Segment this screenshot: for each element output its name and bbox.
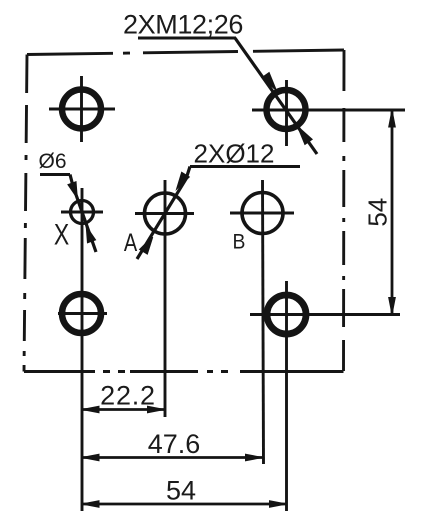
centerline of hole B (extends to 47.6 dimension) [263, 180, 264, 464]
svg-text:54: 54 [166, 476, 196, 506]
label 2XØ12 with underline [190, 139, 300, 169]
svg-text:A: A [124, 229, 138, 257]
text 22.2 [100, 381, 156, 411]
centerline of left hole column (extends to bottom dimensions) [81, 188, 84, 511]
mounting hole bottom-right (thick ring) [267, 281, 306, 511]
svg-text:Ø6: Ø6 [38, 150, 66, 173]
vertical dimension 54 (right side) [389, 110, 396, 315]
port hole B [230, 193, 294, 234]
svg-text:2XM12;26: 2XM12;26 [123, 10, 243, 40]
label A [124, 229, 138, 257]
svg-text:22.2: 22.2 [100, 381, 156, 411]
extension line from top-right hole to right dimension [252, 109, 405, 112]
plate outline right edge (chain line) [342, 50, 345, 372]
dimension 47.6 (bottom) [82, 454, 263, 461]
dimension 54 (bottom) [82, 501, 287, 508]
leader from 2XØ12 through hole A [137, 167, 190, 260]
port hole A [135, 193, 194, 234]
leader from 2XM12;26 through top-right hole [235, 38, 317, 154]
plate outline left edge (chain line) [24, 55, 27, 372]
svg-text:B: B [233, 230, 246, 254]
svg-text:X: X [54, 218, 70, 251]
dimension 22.2 (bottom) [82, 406, 165, 413]
svg-text:54: 54 [363, 198, 393, 227]
mounting hole top-left (thick ring) [49, 76, 115, 142]
leader from Ø6 through hole X [68, 175, 96, 253]
label X [54, 218, 70, 251]
mounting hole bottom-left (thick ring) [58, 294, 107, 333]
text 54 (rotated, right side) [363, 198, 393, 227]
extension line from bottom-right hole to right dimension [250, 313, 400, 316]
text 54 (bottom) [166, 476, 196, 506]
centerline of hole A (extends to 22.2 dimension) [164, 180, 167, 417]
plate outline bottom edge (chain line) [24, 370, 344, 373]
label 2XM12;26 with underline [123, 10, 243, 40]
mounting hole top-right (thick ring) [267, 80, 306, 146]
svg-text:47.6: 47.6 [148, 429, 201, 459]
hole X (small circle) [61, 201, 103, 224]
plate outline top edge (chain line) [27, 50, 344, 55]
label Ø6 with underline [38, 150, 70, 175]
svg-text:2XØ12: 2XØ12 [194, 139, 275, 169]
label B [233, 230, 246, 254]
text 47.6 [148, 429, 201, 459]
